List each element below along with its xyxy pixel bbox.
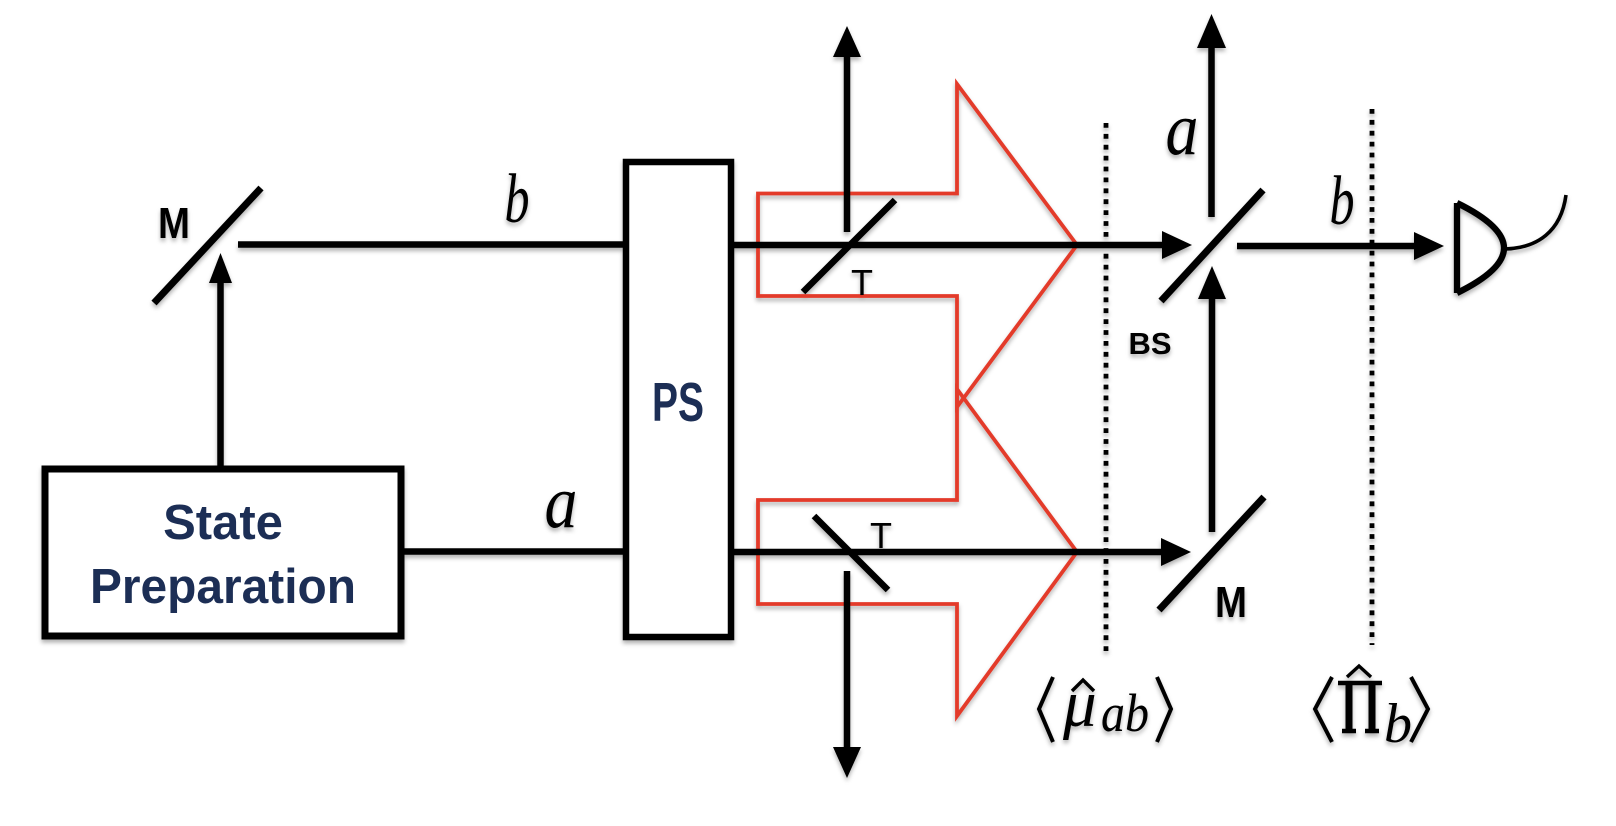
- wire: beam b from mirror M to PS box: [238, 241, 627, 248]
- wire: upward output arrow a above BS: [1208, 47, 1215, 217]
- formula <mu_ab> : hat over mu: [1072, 680, 1094, 691]
- beamsplitter T (top): [803, 200, 895, 292]
- svg-text:a: a: [1166, 88, 1199, 171]
- wire: beam b from BS to detector, with arrowhead: [1237, 243, 1416, 250]
- formula <mu_ab> : left angle bracket: [1039, 677, 1053, 742]
- svg-text:BS: BS: [1128, 326, 1171, 361]
- red block arrow (top, mode b amplifier): [758, 84, 1077, 407]
- svg-text:a: a: [545, 461, 578, 544]
- formula <Pi_b> : hat over Pi: [1347, 666, 1371, 677]
- svg-text:b: b: [1384, 693, 1412, 755]
- svg-text:T: T: [851, 262, 873, 303]
- wire: beam b from PS box to BS, with arrowhead: [728, 242, 1164, 249]
- wire: beam a from PS box to mirror M, with arrowhead: [728, 549, 1163, 556]
- dotted measurement line (Pi_b): [1370, 109, 1375, 645]
- State Preparation box: [45, 469, 401, 636]
- svg-text:b: b: [1330, 163, 1355, 240]
- beamsplitter T (bottom): [814, 516, 888, 590]
- formula <Pi_b> : Pi right foot serif: [1365, 729, 1379, 734]
- wire: upward output arrow above top beamsplitter T: [844, 56, 851, 232]
- svg-text:μ: μ: [1062, 667, 1097, 741]
- formula <Pi_b> : Pi left leg: [1346, 683, 1353, 731]
- wire: arrow from State Preparation up to mirror M: [217, 282, 224, 466]
- mirror M (bottom right): [1159, 497, 1264, 610]
- detector (photodiode D shape): [1457, 203, 1504, 293]
- formula <Pi_b> : left angle bracket: [1315, 677, 1332, 742]
- svg-text:ab: ab: [1101, 683, 1149, 743]
- wire: beam a from State Preparation to PS box: [401, 548, 627, 555]
- formula <mu_ab> : right angle bracket: [1157, 677, 1171, 742]
- svg-text:M: M: [158, 199, 190, 248]
- svg-text:Preparation: Preparation: [90, 560, 356, 614]
- formula <Pi_b> : Pi top bar: [1338, 681, 1382, 686]
- svg-text:T: T: [870, 515, 892, 556]
- dotted measurement line (mu_ab): [1104, 123, 1109, 655]
- formula <Pi_b> : Pi left foot serif: [1342, 729, 1356, 734]
- wire: vertical beam from mirror M up to BS, with arrowhead: [1209, 297, 1216, 532]
- beamsplitter BS (right): [1161, 190, 1263, 301]
- detector whisker: [1505, 195, 1566, 249]
- svg-text:M: M: [1215, 578, 1247, 627]
- svg-text:State: State: [163, 496, 283, 550]
- formula <Pi_b> : Pi right leg: [1369, 683, 1376, 731]
- PS box (phase shifter): [626, 162, 731, 637]
- svg-text:b: b: [505, 161, 530, 238]
- wire: downward output arrow below bottom beamsplitter T: [844, 571, 851, 749]
- mirror M (top left): [154, 188, 261, 303]
- formula <Pi_b> : right angle bracket: [1411, 677, 1428, 742]
- svg-text:PS: PS: [652, 371, 704, 433]
- red block arrow (bottom, mode a amplifier): [758, 389, 1077, 716]
